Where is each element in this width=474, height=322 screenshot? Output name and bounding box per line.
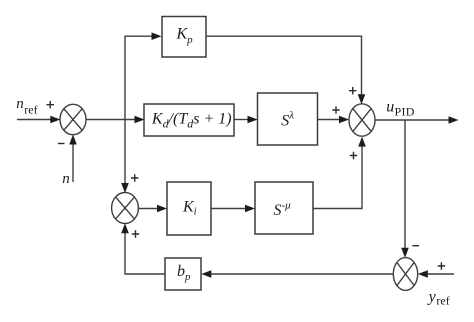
svg-text:n: n xyxy=(16,96,24,112)
svg-text:Ki: Ki xyxy=(182,199,197,218)
svg-text:bp: bp xyxy=(177,263,191,283)
svg-text:ref: ref xyxy=(436,294,449,308)
svg-text:Kp: Kp xyxy=(176,26,194,47)
svg-text:y: y xyxy=(427,288,437,305)
svg-text:u: u xyxy=(386,99,394,116)
svg-text:PID: PID xyxy=(395,104,415,118)
svg-text:S-μ: S-μ xyxy=(274,200,292,220)
svg-text:Kd/(Tds + 1): Kd/(Tds + 1) xyxy=(151,111,232,131)
svg-text:Sλ: Sλ xyxy=(281,110,294,130)
svg-text:n: n xyxy=(62,171,69,187)
svg-text:ref: ref xyxy=(24,103,37,117)
